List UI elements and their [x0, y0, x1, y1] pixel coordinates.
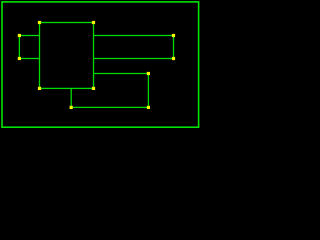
junction: box pin bottom-left: [38, 87, 41, 90]
wire: net A left vertical segment: [18, 36, 20, 59]
junction: bottom rect bottom-left: [70, 106, 73, 109]
wire: net C right vertical segment: [147, 74, 149, 108]
junction: left rect bottom-left: [18, 57, 21, 60]
wire: net B bottom, right rect bottom segment: [94, 58, 174, 60]
wire: net A bottom, left rect bottom segment: [19, 58, 39, 60]
wire: net B right vertical segment: [173, 36, 175, 59]
sheet border frame: [2, 2, 199, 127]
junction: box pin top-left: [38, 21, 41, 24]
wire: net C left vertical stub from box bottom: [70, 88, 72, 107]
junction: right rect top-right: [172, 34, 175, 37]
junction: box pin bottom-right: [92, 87, 95, 90]
junction: bottom rect bottom-right: [147, 106, 150, 109]
wire: net C bottom horizontal segment: [71, 106, 148, 108]
wire: net A top, left rect top segment: [19, 35, 39, 37]
junction: left rect top-left: [18, 34, 21, 37]
wire: net B top, right rect top segment: [94, 35, 174, 37]
junction: right rect bottom-right: [172, 57, 175, 60]
junction: bottom rect top-right: [147, 72, 150, 75]
component box U1 outline: [40, 23, 94, 89]
wire: net C top, bottom rect top segment: [94, 73, 149, 75]
junction: box pin top-right: [92, 21, 95, 24]
